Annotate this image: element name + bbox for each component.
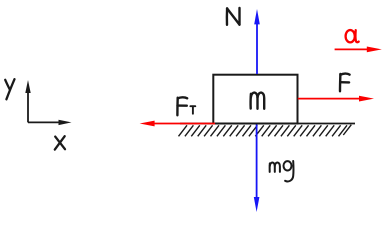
x axis label (55, 136, 65, 149)
label F (340, 74, 350, 92)
friction force FT arrow (140, 121, 215, 127)
label mg (270, 161, 294, 181)
label FT (177, 97, 187, 115)
label N (227, 8, 240, 25)
block mass label m (251, 93, 265, 109)
weight mg arrow (254, 124, 260, 213)
y axis label (5, 79, 14, 99)
applied force F arrow (298, 96, 374, 102)
ground surface line (180, 123, 355, 125)
ground hatching (179, 125, 352, 137)
normal force N arrow (254, 9, 260, 74)
label a (346, 30, 359, 42)
block m (213, 75, 297, 124)
coordinate axes (25, 80, 71, 125)
acceleration a arrow (335, 47, 382, 53)
